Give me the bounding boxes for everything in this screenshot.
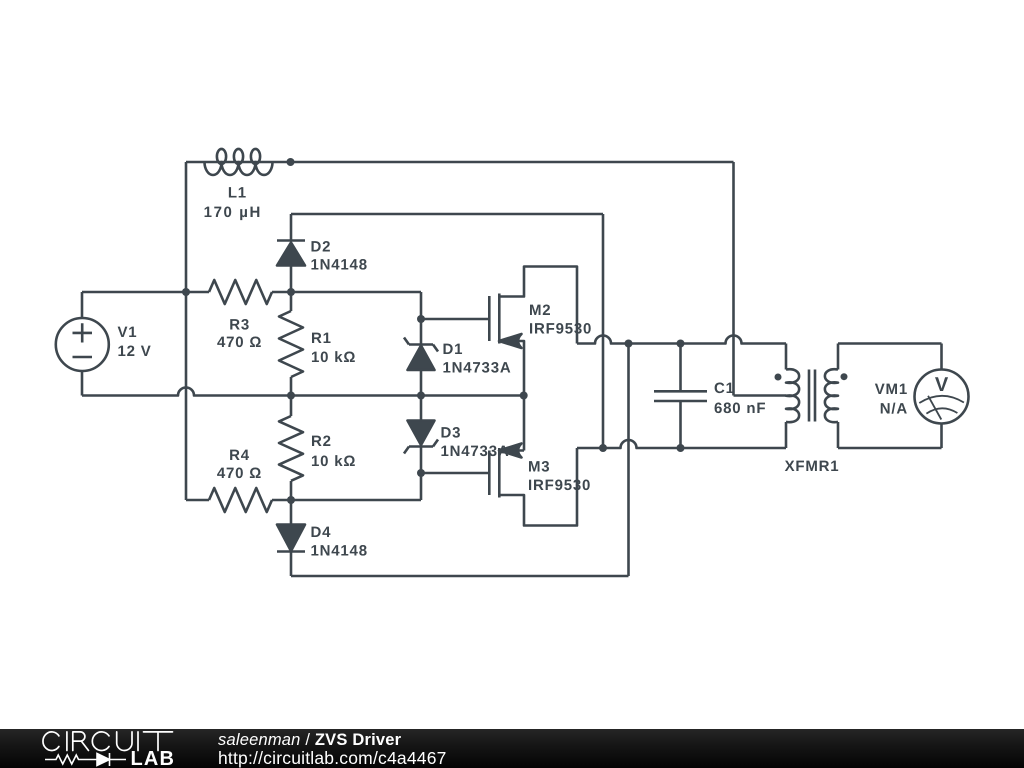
node dot (680.5,343.5) [677, 340, 685, 348]
CircuitLab logo [0, 729, 210, 768]
wire D2 row y=214 [291, 213, 603, 216]
svg-text:170 µH: 170 µH [204, 204, 262, 221]
node dot (291,395.5) [287, 392, 295, 400]
wire top row y=292 [82, 291, 209, 294]
wire D3 top lead [420, 396, 423, 421]
svg-text:1N4733A: 1N4733A [443, 360, 512, 377]
wire secondary top y=343.5 [838, 342, 942, 345]
svg-text:D4: D4 [311, 524, 332, 541]
node dot (523.7,395.5) [520, 392, 528, 400]
svg-text:N/A: N/A [880, 401, 908, 418]
svg-text:1N4148: 1N4148 [311, 543, 368, 560]
svg-text:M2: M2 [529, 302, 551, 319]
transistor M3 [489, 444, 577, 526]
svg-text:LAB: LAB [131, 748, 176, 768]
wire L1 to center-tap column y=162 [273, 161, 734, 164]
wire row y=500 to x=421 [291, 499, 421, 502]
svg-text:XFMR1: XFMR1 [785, 458, 840, 475]
wire D3 bottom lead x=421 [420, 447, 423, 501]
node dot (186,292) [182, 288, 190, 296]
wire D2 top lead [290, 214, 293, 241]
resistor R2 [279, 396, 303, 501]
wire rail y=448 with hop at 628.5 [577, 440, 786, 448]
svg-text:R3: R3 [229, 317, 250, 334]
svg-text:V: V [935, 374, 949, 396]
resistor R3 [209, 280, 272, 304]
wire D2 bottom lead [290, 266, 293, 293]
svg-text:R4: R4 [229, 447, 250, 464]
wire center-tap vertical x=733.5 [732, 162, 735, 396]
wire rail y=343.5 with hops at 603 and 733.5 [577, 336, 786, 344]
wire secondary bottom y=448 [838, 447, 942, 450]
wire V1 top vertical [81, 292, 84, 318]
svg-text:470 Ω: 470 Ω [217, 334, 262, 351]
node dot gate M2 (421,319) [417, 315, 425, 323]
node dot (628.5,343.5) [625, 340, 633, 348]
node dot (421,395.5) [417, 392, 425, 400]
wire center tap horizontal [734, 394, 787, 397]
wire bottom rail y=395.5 left segment with hop at x=186 [82, 388, 524, 396]
node dot (680.5,448) [677, 444, 685, 452]
transformer XFMR1 [775, 344, 848, 449]
svg-text:IRF9530: IRF9530 [529, 321, 592, 338]
diode D4 [277, 500, 305, 576]
svg-text:R2: R2 [311, 433, 332, 450]
svg-text:1N4148: 1N4148 [311, 257, 368, 274]
resistor R1 [279, 292, 303, 396]
wire left vertical x=186 [185, 162, 188, 500]
wire x=603 vertical [602, 214, 605, 448]
node dot (291,500) [287, 496, 295, 504]
transistor M2 [489, 267, 577, 451]
svg-text:IRF9530: IRF9530 [528, 477, 591, 494]
wire M3 gate lead [421, 472, 489, 475]
zener diode D3 [404, 421, 438, 454]
wire R3 right to node [272, 291, 421, 294]
inductor L1 [205, 149, 273, 175]
wire x=628.5 vertical [627, 344, 630, 577]
svg-text:C1: C1 [714, 380, 735, 397]
svg-text:M3: M3 [528, 459, 550, 476]
svg-text:D3: D3 [441, 425, 462, 442]
node dot (291,292) [287, 288, 295, 296]
voltage source V1 [56, 318, 109, 371]
svg-text:1N4733A: 1N4733A [441, 443, 510, 460]
zener diode D1 [404, 338, 438, 396]
diode D2 [277, 241, 305, 266]
node dot (421,473) [417, 469, 425, 477]
svg-text:D1: D1 [443, 341, 464, 358]
svg-text:680 nF: 680 nF [714, 400, 766, 417]
svg-text:L1: L1 [228, 185, 247, 202]
wire V1 bottom lead [81, 371, 84, 396]
svg-text:12 V: 12 V [118, 343, 152, 360]
svg-text:10 kΩ: 10 kΩ [311, 349, 356, 366]
svg-text:470 Ω: 470 Ω [217, 465, 262, 482]
node dot (603,448) [599, 444, 607, 452]
wire bottom loop y=576 [291, 575, 629, 578]
svg-text:D2: D2 [311, 239, 332, 256]
node dot at L1 output [287, 158, 295, 166]
capacitor C1 [654, 344, 707, 449]
svg-text:V1: V1 [118, 324, 138, 341]
voltmeter VM1 [915, 344, 969, 449]
wire L1 left stub [186, 161, 205, 164]
wire M2 gate lead [421, 318, 489, 321]
svg-text:R1: R1 [311, 330, 332, 347]
svg-text:VM1: VM1 [875, 381, 908, 398]
wire node row to D1 column vertical x=421 upper [420, 292, 423, 345]
resistor R4 [186, 488, 291, 512]
svg-text:10 kΩ: 10 kΩ [311, 453, 356, 470]
